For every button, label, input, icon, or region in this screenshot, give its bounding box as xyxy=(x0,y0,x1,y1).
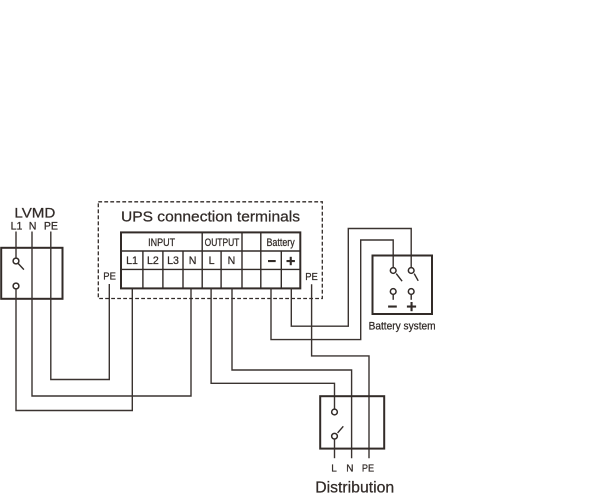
wire N: LVMD to UPS input N xyxy=(32,232,191,397)
wire L1: LVMD label to switch xyxy=(15,232,17,259)
switch Q1 blade xyxy=(18,264,24,270)
UPS dashed enclosure xyxy=(98,202,322,299)
battery label plus xyxy=(407,302,416,311)
svg-text:PE: PE xyxy=(362,464,374,475)
svg-text:LVMD: LVMD xyxy=(14,206,55,222)
svg-text:INPUT: INPUT xyxy=(148,237,175,249)
svg-text:Distribution: Distribution xyxy=(315,480,394,493)
LVMD panel box xyxy=(1,248,62,299)
wire L (UPS output) to Distribution L xyxy=(211,288,334,409)
distribution switch blade xyxy=(338,426,344,433)
terminal block row divider 2 xyxy=(121,268,300,270)
svg-text:L1: L1 xyxy=(126,255,138,267)
Battery system box xyxy=(373,256,433,315)
battery terminal plus stem xyxy=(410,295,412,300)
terminal label minus (UPS battery) xyxy=(268,260,276,262)
terminal block column dividers (full height) xyxy=(202,232,261,288)
battery switch right upper contact xyxy=(408,268,414,274)
battery switch left upper contact xyxy=(390,268,396,274)
wire below distribution switch xyxy=(334,439,336,458)
svg-text:PE: PE xyxy=(44,221,58,233)
battery switch right blade xyxy=(414,274,418,281)
battery terminal plus contact xyxy=(408,289,414,295)
wire minus: UPS battery to Battery system xyxy=(271,240,393,340)
Distribution box xyxy=(320,396,384,448)
terminal block row divider 1 xyxy=(121,250,300,252)
svg-text:OUTPUT: OUTPUT xyxy=(205,237,240,249)
svg-text:L2: L2 xyxy=(147,255,159,267)
svg-text:L1: L1 xyxy=(11,221,23,233)
battery terminal minus contact xyxy=(390,289,396,295)
wire plus: UPS battery to Battery system xyxy=(291,229,411,327)
svg-text:PE: PE xyxy=(305,272,318,283)
battery label minus xyxy=(388,306,397,308)
battery switch left blade xyxy=(396,274,402,282)
svg-text:N: N xyxy=(228,255,236,267)
svg-text:Battery system: Battery system xyxy=(369,320,436,332)
battery terminal minus stem xyxy=(392,295,394,300)
svg-text:PE: PE xyxy=(103,271,116,282)
wire PE: LVMD to UPS PE xyxy=(51,232,110,380)
svg-text:L: L xyxy=(209,255,215,267)
wire N (UPS output) to Distribution N xyxy=(232,288,352,458)
svg-text:N: N xyxy=(189,255,197,267)
svg-text:N: N xyxy=(346,464,353,475)
svg-text:N: N xyxy=(29,221,37,233)
wire L1: LVMD switch to UPS input L1 xyxy=(16,288,132,410)
svg-text:Battery: Battery xyxy=(267,237,296,249)
svg-text:UPS connection terminals: UPS connection terminals xyxy=(121,210,300,226)
terminal block column dividers (rows 2-3) xyxy=(143,251,281,288)
distribution switch lower contact xyxy=(332,433,338,439)
wire PE (UPS right) to Distribution PE xyxy=(312,284,369,458)
distribution switch upper contact xyxy=(332,409,338,415)
svg-text:L: L xyxy=(331,464,337,475)
terminal label plus (UPS battery) xyxy=(287,257,295,265)
svg-text:L3: L3 xyxy=(167,255,179,267)
terminal block outline xyxy=(121,232,300,288)
switch Q1 upper contact (LVMD breaker) xyxy=(13,258,19,264)
switch Q1 lower contact xyxy=(13,283,19,289)
